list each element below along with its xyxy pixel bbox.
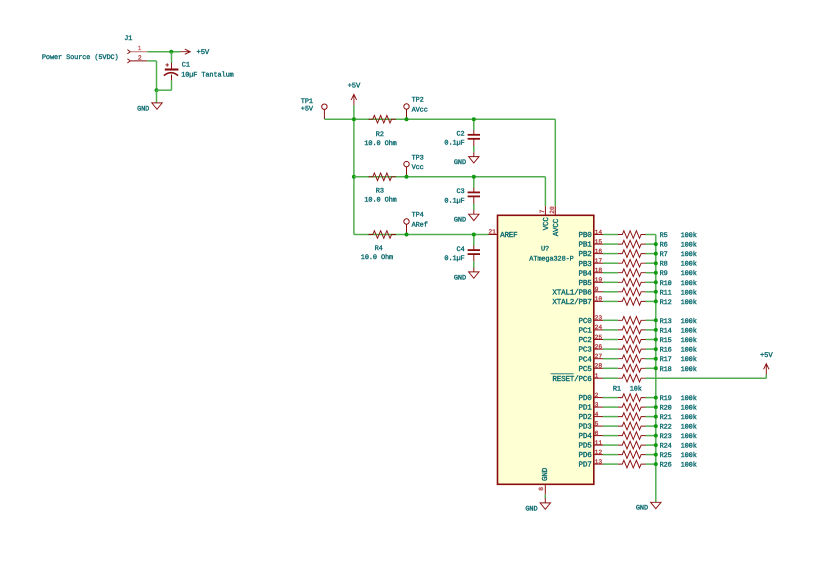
resistor R2 [368, 115, 396, 123]
wire +5V vertical rail [353, 119, 355, 234]
wire R16 to bus [646, 348, 656, 350]
label R23 100k [660, 433, 697, 441]
wire pin 23 to resistor [603, 319, 618, 321]
wire pin 6 to resistor [603, 435, 618, 437]
svg-text:ATmega328-P: ATmega328-P [529, 256, 573, 264]
wire R5 to bus [646, 234, 656, 236]
ground under C2 [454, 157, 479, 167]
svg-text:TP1: TP1 [301, 98, 313, 106]
junction [352, 117, 356, 121]
wire pin 18 to resistor [603, 272, 618, 274]
wire pin 27 to resistor [603, 358, 618, 360]
label R3 10.0 Ohm [364, 188, 396, 205]
junction bus/R8 [654, 261, 658, 265]
svg-text:0.1µF: 0.1µF [444, 197, 464, 205]
svg-text:AVcc: AVcc [412, 106, 428, 114]
resistor R16 [618, 345, 646, 353]
svg-text:GND: GND [454, 159, 466, 167]
svg-text:2: 2 [595, 392, 599, 399]
svg-text:ARef: ARef [412, 221, 428, 229]
IC pin 3 PD1 [579, 401, 603, 412]
svg-text:R26: R26 [660, 462, 672, 470]
svg-text:6: 6 [595, 430, 599, 437]
label R16 100k [660, 347, 697, 355]
wire R26 to bus [646, 463, 656, 465]
wire R8 to bus [646, 262, 656, 264]
label R19 100k [660, 395, 697, 403]
connector J1 pin 2 [127, 54, 147, 63]
junction bus/R16 [654, 347, 658, 351]
junction bus/R17 [654, 357, 658, 361]
svg-text:PC0: PC0 [579, 317, 593, 326]
power symbol +5V (RESET pull-up) [760, 352, 773, 374]
IC pin 20 AVCC [549, 206, 561, 236]
svg-text:20: 20 [549, 206, 556, 214]
junction bus/R26 [654, 462, 658, 466]
wire pin 13 to resistor [603, 463, 618, 465]
junction bus/R14 [654, 328, 658, 332]
junction bus/R6 [654, 242, 658, 246]
svg-text:+5V: +5V [348, 83, 361, 91]
wire R19 to bus [646, 397, 656, 399]
resistor R9 [618, 269, 646, 277]
svg-text:100k: 100k [681, 261, 697, 269]
IC pin 14 PB0 [579, 229, 603, 240]
svg-text:XTAL1/PB6: XTAL1/PB6 [552, 288, 592, 297]
svg-text:R22: R22 [660, 424, 672, 432]
svg-text:R17: R17 [660, 356, 672, 364]
wire pin 25 to resistor [603, 339, 618, 341]
svg-text:R19: R19 [660, 395, 672, 403]
svg-text:100k: 100k [681, 232, 697, 240]
wire R6 to bus [646, 243, 656, 245]
label R10 100k [660, 280, 697, 288]
wire pin 2 to resistor [603, 397, 618, 399]
wire pin 14 to resistor [603, 234, 618, 236]
svg-text:PD0: PD0 [579, 394, 593, 403]
wire pin 9 to resistor [603, 291, 618, 293]
junction [352, 175, 356, 179]
svg-text:PD1: PD1 [579, 405, 593, 413]
svg-text:100k: 100k [681, 462, 697, 470]
wire pin 24 to resistor [603, 329, 618, 331]
svg-text:0.1µF: 0.1µF [444, 255, 464, 263]
junction bus/R24 [654, 443, 658, 447]
IC pin 19 PB5 [579, 277, 603, 288]
svg-text:100k: 100k [681, 337, 697, 345]
junction bus/R19 [654, 396, 658, 400]
wire pin8 to ground [544, 495, 546, 498]
svg-text:24: 24 [595, 324, 603, 331]
junction [405, 117, 409, 121]
svg-text:12: 12 [595, 449, 603, 456]
svg-text:100k: 100k [681, 414, 697, 422]
wire pin 10 to resistor [603, 300, 618, 302]
ground symbol (IC) [525, 503, 550, 513]
wire pin 19 to resistor [603, 281, 618, 283]
junction bus/R21 [654, 415, 658, 419]
capacitor C4 [444, 235, 480, 272]
wire R12 to bus [646, 300, 656, 302]
label R21 100k [660, 414, 697, 422]
test point TP1 [301, 98, 327, 119]
junction [472, 117, 476, 121]
label R12 100k [660, 299, 697, 307]
svg-text:TP4: TP4 [412, 212, 424, 220]
svg-text:PB5: PB5 [579, 280, 593, 288]
svg-text:R1: R1 [613, 386, 621, 394]
wire +5V to RESET row [765, 375, 767, 379]
svg-text:R11: R11 [660, 289, 672, 297]
svg-text:XTAL2/PB7: XTAL2/PB7 [552, 298, 591, 307]
resistor R15 [618, 336, 646, 344]
wire pin 1 to resistor [603, 377, 618, 379]
svg-text:GND: GND [137, 105, 149, 113]
wire RESET to +5V [646, 377, 767, 379]
IC pin 27 PC4 [579, 353, 603, 364]
junction bus/R12 [654, 299, 658, 303]
svg-text:11: 11 [595, 439, 603, 446]
label R20 100k [660, 405, 697, 413]
svg-text:R14: R14 [660, 327, 672, 335]
IC pin 25 PC2 [579, 334, 603, 345]
svg-text:10.0 Ohm: 10.0 Ohm [364, 197, 396, 205]
junction bus/R20 [654, 405, 658, 409]
svg-text:100k: 100k [681, 395, 697, 403]
svg-text:100k: 100k [681, 424, 697, 432]
ground (bus) [636, 502, 661, 512]
wire R21 to bus [646, 416, 656, 418]
label R9 100k [660, 270, 697, 278]
svg-text:PB0: PB0 [579, 231, 593, 240]
resistor R1 10k (RESET pull-up) [618, 374, 646, 382]
wire pin1 to +5V [147, 51, 180, 53]
svg-text:Vcc: Vcc [412, 164, 424, 172]
svg-text:8: 8 [538, 487, 545, 491]
svg-text:100k: 100k [681, 318, 697, 326]
svg-text:PD3: PD3 [579, 423, 593, 432]
capacitor C2 [444, 119, 480, 156]
svg-text:18: 18 [595, 267, 603, 274]
test point TP4 [404, 212, 428, 235]
IC pin 23 PC0 [579, 315, 603, 326]
wire R22 to bus [646, 425, 656, 427]
svg-text:R20: R20 [660, 405, 672, 413]
svg-text:15: 15 [595, 238, 603, 245]
svg-text:4: 4 [595, 411, 599, 418]
resistor R13 [618, 317, 646, 325]
label R13 100k [660, 318, 697, 326]
IC U? ATmega328-P body [498, 215, 594, 484]
svg-text:26: 26 [595, 343, 603, 350]
IC pin 6 PD4 [579, 430, 603, 441]
svg-text:PC2: PC2 [579, 336, 593, 345]
junction node +5V at C1 [169, 50, 173, 54]
IC pin 4 PD2 [579, 411, 603, 422]
IC pin 17 PB3 [579, 258, 603, 269]
wire pin 11 to resistor [603, 444, 618, 446]
IC pin 2 PD0 [579, 392, 603, 403]
svg-text:C3: C3 [457, 188, 465, 196]
junction bus/R7 [654, 252, 658, 256]
capacitor C3 [444, 177, 480, 214]
label R26 100k [660, 462, 697, 470]
label R25 100k [660, 452, 697, 460]
svg-text:R3: R3 [376, 188, 384, 196]
svg-text:C2: C2 [457, 131, 465, 139]
junction [472, 233, 476, 237]
svg-text:100k: 100k [681, 443, 697, 451]
svg-text:VCC: VCC [542, 217, 551, 231]
svg-text:21: 21 [488, 228, 496, 235]
ground under C4 [454, 272, 479, 282]
junction bus/R23 [654, 434, 658, 438]
wire pin 4 to resistor [603, 416, 618, 418]
resistor R23 [618, 432, 646, 440]
IC pin 26 PC3 [579, 343, 603, 354]
IC pin 18 PB4 [579, 267, 603, 278]
junction bus/R22 [654, 424, 658, 428]
junction bus/R11 [654, 290, 658, 294]
svg-text:17: 17 [595, 258, 603, 265]
wire R24 to bus [646, 444, 656, 446]
svg-text:PB2: PB2 [579, 250, 593, 259]
resistor R17 [618, 355, 646, 363]
resistor R22 [618, 422, 646, 430]
svg-text:100k: 100k [681, 452, 697, 460]
svg-text:100k: 100k [681, 405, 697, 413]
svg-text:PD4: PD4 [579, 433, 593, 441]
label R7 100k [660, 251, 697, 259]
resistor R21 [618, 413, 646, 421]
label R11 100k [660, 289, 697, 297]
label R15 100k [660, 337, 697, 345]
wire pin 26 to resistor [603, 348, 618, 350]
capacitor C1 10uF Tantalum [164, 52, 234, 90]
wire ARef row [354, 234, 489, 236]
svg-text:10.0 Ohm: 10.0 Ohm [364, 140, 396, 148]
label R6 100k [660, 242, 697, 250]
wire pin2 down [156, 61, 158, 90]
svg-text:23: 23 [595, 315, 603, 322]
wire pin 3 to resistor [603, 406, 618, 408]
wire pin 28 to resistor [603, 367, 618, 369]
svg-text:PD7: PD7 [579, 462, 592, 470]
junction bus/R13 [654, 318, 658, 322]
IC pin 21 AREF [488, 228, 518, 240]
junction bus/R18 [654, 366, 658, 370]
svg-text:10.0 Ohm: 10.0 Ohm [361, 254, 393, 262]
connector J1 [42, 35, 132, 62]
svg-text:RESET/PC6: RESET/PC6 [552, 375, 592, 384]
resistor R25 [618, 451, 646, 459]
svg-text:GND: GND [636, 505, 648, 513]
svg-text:27: 27 [595, 353, 603, 360]
svg-text:PD2: PD2 [579, 413, 593, 422]
svg-text:14: 14 [595, 229, 603, 236]
wire R10 to bus [646, 281, 656, 283]
wire pin 17 to resistor [603, 262, 618, 264]
svg-text:R10: R10 [660, 280, 672, 288]
test point TP3 [404, 154, 424, 177]
junction [405, 175, 409, 179]
svg-text:C4: C4 [457, 246, 465, 254]
svg-text:28: 28 [595, 363, 603, 370]
svg-text:PB4: PB4 [579, 270, 593, 278]
svg-text:GND: GND [454, 217, 466, 225]
svg-text:10k: 10k [630, 386, 642, 394]
resistor R4 [368, 231, 396, 239]
svg-text:AVCC: AVCC [552, 218, 561, 236]
junction GND node [155, 88, 159, 92]
label R1 10k [613, 386, 642, 394]
wire to ground [156, 90, 158, 103]
svg-text:PB1: PB1 [579, 242, 593, 250]
svg-text:R4: R4 [375, 245, 383, 253]
ground (IC pin 8) [544, 498, 546, 503]
wire pin 5 to resistor [603, 425, 618, 427]
wire pull resistor bus [655, 235, 657, 503]
IC pin 7 VCC [539, 206, 551, 230]
svg-text:TP3: TP3 [412, 154, 424, 162]
label R14 100k [660, 327, 697, 335]
svg-text:100k: 100k [681, 270, 697, 278]
svg-text:R13: R13 [660, 318, 672, 326]
svg-text:25: 25 [595, 334, 603, 341]
IC pin 12 PD6 [579, 449, 603, 460]
IC pin 1 RESET/PC6 [551, 373, 603, 384]
wire down to VCC pin [544, 177, 546, 206]
wire GND node to C1 [157, 89, 172, 91]
wire R23 to bus [646, 435, 656, 437]
svg-text:13: 13 [595, 458, 603, 465]
svg-text:R5: R5 [660, 232, 668, 240]
svg-text:100k: 100k [681, 366, 697, 374]
wire R15 to bus [646, 339, 656, 341]
svg-text:J1: J1 [124, 35, 132, 43]
resistor R7 [618, 250, 646, 258]
wire R14 to bus [646, 329, 656, 331]
svg-text:100k: 100k [681, 251, 697, 259]
power symbol +5V (J1) [180, 49, 210, 57]
power symbol +5V (rail) [348, 83, 361, 105]
svg-text:100k: 100k [681, 433, 697, 441]
svg-text:R21: R21 [660, 414, 672, 422]
resistor R5 [618, 231, 646, 239]
wire R17 to bus [646, 358, 656, 360]
svg-text:10µF Tantalum: 10µF Tantalum [181, 72, 233, 80]
IC pin 9 XTAL1/PB6 [552, 286, 603, 297]
ground under C3 [454, 214, 479, 224]
wire pin2 right [147, 60, 156, 62]
wire down to AVCC pin [554, 119, 556, 206]
svg-text:10: 10 [595, 296, 603, 303]
svg-text:3: 3 [595, 401, 599, 408]
svg-text:+5V: +5V [760, 352, 773, 360]
wire pin 12 to resistor [603, 454, 618, 456]
label R18 100k [660, 366, 697, 374]
svg-text:2: 2 [138, 54, 142, 61]
svg-text:0.1µF: 0.1µF [444, 140, 464, 148]
svg-text:GND: GND [454, 274, 466, 282]
svg-text:100k: 100k [681, 327, 697, 335]
svg-text:GND: GND [525, 505, 537, 513]
wire R9 to bus [646, 272, 656, 274]
resistor R3 [368, 173, 396, 181]
junction bus/R15 [654, 338, 658, 342]
wire pin 15 to resistor [603, 243, 618, 245]
IC pin 24 PC1 [579, 324, 603, 335]
svg-text:PD5: PD5 [579, 443, 593, 451]
svg-text:19: 19 [595, 277, 603, 284]
junction bus/R9 [654, 271, 658, 275]
junction bus/R25 [654, 453, 658, 457]
svg-text:GND: GND [541, 467, 550, 481]
junction [472, 175, 476, 179]
junction bus/R10 [654, 280, 658, 284]
IC pin 11 PD5 [579, 439, 603, 450]
connector J1 pin 1 [127, 45, 147, 54]
svg-text:100k: 100k [681, 356, 697, 364]
svg-text:100k: 100k [681, 242, 697, 250]
svg-text:C1: C1 [182, 62, 190, 70]
svg-text:R24: R24 [660, 443, 672, 451]
svg-text:9: 9 [595, 286, 599, 293]
svg-text:PD6: PD6 [579, 451, 593, 460]
label R24 100k [660, 443, 697, 451]
svg-text:TP2: TP2 [412, 97, 424, 105]
label R4 10.0 Ohm [361, 245, 393, 262]
wire R25 to bus [646, 454, 656, 456]
svg-text:Power Source (5VDC): Power Source (5VDC) [42, 54, 119, 62]
IC pin 16 PB2 [579, 248, 603, 259]
wire R7 to bus [646, 253, 656, 255]
svg-text:PB3: PB3 [579, 260, 593, 269]
resistor R14 [618, 326, 646, 334]
svg-text:100k: 100k [681, 347, 697, 355]
label R17 100k [660, 356, 697, 364]
wire R11 to bus [646, 291, 656, 293]
resistor R26 [618, 460, 646, 468]
svg-text:100k: 100k [681, 289, 697, 297]
resistor R6 [618, 240, 646, 248]
svg-text:R18: R18 [660, 366, 672, 374]
svg-text:R7: R7 [660, 251, 668, 259]
IC pin 10 XTAL2/PB7 [552, 296, 603, 307]
resistor R10 [618, 279, 646, 287]
svg-text:5: 5 [595, 420, 599, 427]
svg-text:PC3: PC3 [579, 346, 593, 355]
resistor R11 [618, 288, 646, 296]
svg-text:R6: R6 [660, 242, 668, 250]
svg-text:100k: 100k [681, 299, 697, 307]
wire R20 to bus [646, 406, 656, 408]
ground (J1) [137, 103, 162, 113]
wire R13 to bus [646, 319, 656, 321]
IC pin 15 PB1 [579, 238, 603, 249]
wire pin 16 to resistor [603, 253, 618, 255]
resistor R20 [618, 403, 646, 411]
svg-text:100k: 100k [681, 280, 697, 288]
svg-text:U?: U? [541, 245, 549, 253]
label R8 100k [660, 261, 697, 269]
svg-text:R23: R23 [660, 433, 672, 441]
svg-text:R9: R9 [660, 270, 668, 278]
resistor R12 [618, 298, 646, 306]
junction [405, 233, 409, 237]
svg-text:R2: R2 [376, 131, 384, 139]
resistor R24 [618, 441, 646, 449]
